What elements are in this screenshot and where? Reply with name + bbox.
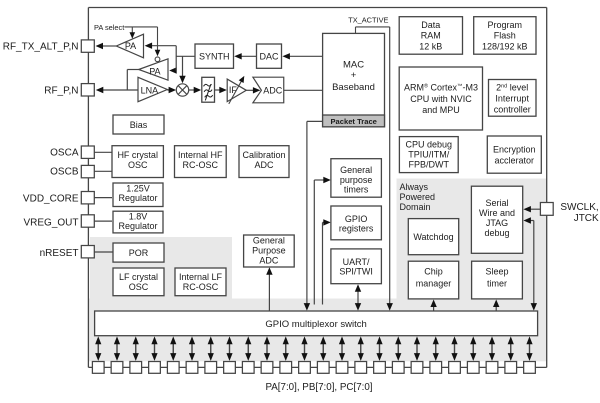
- svg-text:nRESET: nRESET: [40, 248, 79, 259]
- svg-text:JTAG: JTAG: [486, 218, 508, 228]
- svg-text:PA select: PA select: [94, 23, 124, 32]
- svg-text:Watchdog: Watchdog: [413, 232, 453, 242]
- svg-text:Internal LF: Internal LF: [179, 272, 223, 282]
- svg-text:HF crystal: HF crystal: [117, 150, 158, 160]
- svg-text:OSCA: OSCA: [50, 148, 79, 159]
- svg-text:Always: Always: [400, 182, 429, 192]
- svg-text:Data: Data: [421, 20, 440, 30]
- svg-text:Program: Program: [488, 20, 523, 30]
- svg-text:ADC: ADC: [259, 256, 279, 266]
- svg-text:LNA: LNA: [141, 86, 159, 96]
- svg-text:Powered: Powered: [400, 192, 436, 202]
- svg-text:Regulator: Regulator: [118, 193, 157, 203]
- svg-text:acclerator: acclerator: [495, 155, 535, 165]
- svg-text:PA[7:0], PB[7:0], PC[7:0]: PA[7:0], PB[7:0], PC[7:0]: [265, 382, 372, 393]
- svg-text:Regulator: Regulator: [118, 221, 157, 231]
- svg-text:LF crystal: LF crystal: [119, 272, 158, 282]
- svg-text:ADC: ADC: [254, 160, 274, 170]
- svg-text:ARM® Cortex™-M3: ARM® Cortex™-M3: [404, 83, 478, 93]
- svg-text:TX_ACTIVE: TX_ACTIVE: [348, 16, 388, 25]
- svg-text:Baseband: Baseband: [332, 82, 375, 93]
- svg-text:registers: registers: [339, 224, 374, 234]
- svg-text:PA: PA: [125, 41, 136, 51]
- svg-text:SWCLK,: SWCLK,: [560, 202, 598, 213]
- svg-text:FPB/DWT: FPB/DWT: [409, 160, 450, 170]
- svg-text:OSC: OSC: [129, 282, 149, 292]
- svg-text:Chip: Chip: [424, 267, 443, 277]
- svg-text:GPIO multiplexor switch: GPIO multiplexor switch: [265, 319, 366, 330]
- svg-text:POR: POR: [129, 248, 149, 258]
- svg-text:TPIU/ITM/: TPIU/ITM/: [408, 150, 449, 160]
- svg-text:Internal HF: Internal HF: [178, 150, 223, 160]
- svg-text:VDD_CORE: VDD_CORE: [23, 193, 79, 204]
- svg-text:Packet Trace: Packet Trace: [330, 117, 376, 126]
- svg-text:RF_TX_ALT_P,N: RF_TX_ALT_P,N: [3, 41, 79, 52]
- svg-text:CPU debug: CPU debug: [406, 139, 453, 149]
- svg-text:OSCB: OSCB: [50, 167, 79, 178]
- svg-text:ADC: ADC: [263, 85, 283, 95]
- svg-text:Wire and: Wire and: [479, 208, 515, 218]
- svg-text:purpose: purpose: [340, 175, 373, 185]
- svg-text:Encryption: Encryption: [493, 145, 536, 155]
- svg-text:12 kB: 12 kB: [419, 42, 442, 52]
- svg-text:timers: timers: [344, 185, 369, 195]
- svg-text:debug: debug: [484, 228, 509, 238]
- svg-text:Bias: Bias: [130, 120, 148, 130]
- svg-text:GPIO: GPIO: [345, 214, 368, 224]
- svg-text:OSC: OSC: [128, 160, 148, 170]
- svg-text:+: +: [351, 70, 357, 81]
- svg-text:DAC: DAC: [259, 51, 279, 61]
- svg-text:MAC: MAC: [343, 59, 364, 70]
- svg-text:RC-OSC: RC-OSC: [183, 160, 219, 170]
- svg-text:1.8V: 1.8V: [129, 211, 148, 221]
- svg-text:PA: PA: [149, 66, 160, 76]
- svg-text:VREG_OUT: VREG_OUT: [23, 218, 78, 229]
- svg-text:Serial: Serial: [485, 198, 508, 208]
- svg-text:General: General: [253, 235, 285, 245]
- svg-text:Interrupt: Interrupt: [495, 94, 529, 104]
- svg-text:2nd level: 2nd level: [496, 82, 528, 92]
- svg-text:1.25V: 1.25V: [126, 184, 150, 194]
- svg-text:SPI/TWI: SPI/TWI: [339, 267, 373, 277]
- svg-text:Purpose: Purpose: [252, 246, 286, 256]
- svg-text:RC-OSC: RC-OSC: [183, 282, 219, 292]
- svg-text:and MPU: and MPU: [422, 105, 460, 115]
- svg-text:Sleep: Sleep: [485, 267, 508, 277]
- svg-text:controller: controller: [494, 104, 531, 114]
- svg-text:RF_P,N: RF_P,N: [44, 85, 78, 96]
- svg-text:128/192 kB: 128/192 kB: [482, 42, 528, 52]
- svg-text:Flash: Flash: [494, 31, 516, 41]
- svg-text:timer: timer: [487, 279, 507, 289]
- svg-text:SYNTH: SYNTH: [199, 51, 230, 61]
- svg-text:Domain: Domain: [400, 202, 431, 212]
- svg-text:CPU with NVIC: CPU with NVIC: [410, 94, 472, 104]
- svg-text:manager: manager: [416, 279, 452, 289]
- svg-text:JTCK: JTCK: [574, 213, 599, 224]
- svg-text:RAM: RAM: [421, 31, 441, 41]
- svg-text:UART/: UART/: [343, 257, 370, 267]
- svg-text:General: General: [340, 165, 372, 175]
- svg-text:Calibration: Calibration: [242, 150, 285, 160]
